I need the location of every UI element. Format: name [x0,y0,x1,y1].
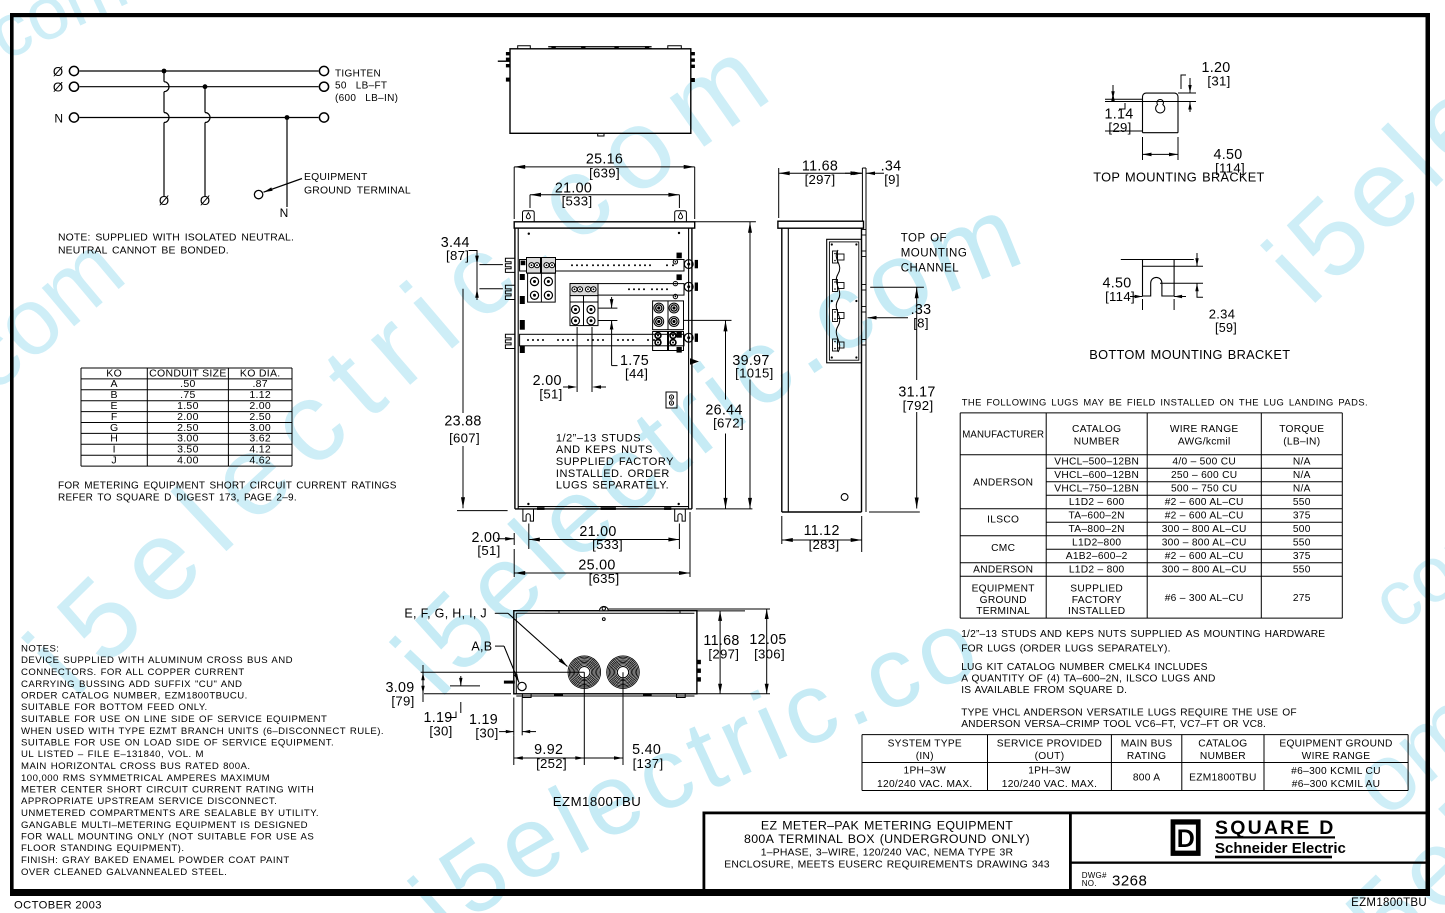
svg-text:TA–600–2N: TA–600–2N [1069,511,1125,522]
svg-text:[252]: [252] [536,756,567,771]
svg-text:REFER TO SQUARE D DIGEST 173,: REFER TO SQUARE D DIGEST 173, PAGE 2–9. [58,493,297,504]
svg-text:1/2”–13 STUDS AND KEPS NUTS SU: 1/2”–13 STUDS AND KEPS NUTS SUPPLIED AS … [961,629,1325,640]
svg-text:[792]: [792] [903,398,934,413]
svg-text:[9]: [9] [884,172,900,187]
svg-text:550: 550 [1293,538,1311,549]
svg-text:NOTE: SUPPLIED WITH ISOLATED N: NOTE: SUPPLIED WITH ISOLATED NEUTRAL. [58,233,294,244]
svg-text:SUITABLE FOR USE ON LOAD SIDE: SUITABLE FOR USE ON LOAD SIDE OF SERVICE… [21,738,334,749]
svg-text:Ø: Ø [159,193,169,208]
svg-text:GROUND TERMINAL: GROUND TERMINAL [304,186,411,197]
svg-text:N: N [280,206,289,220]
svg-text:N: N [54,111,63,125]
svg-text:FINISH: GRAY BAKED ENAMEL POWD: FINISH: GRAY BAKED ENAMEL POWDER COAT PA… [21,855,290,866]
svg-text:FOR METERING EQUIPMENT SHORT C: FOR METERING EQUIPMENT SHORT CIRCUIT CUR… [58,481,397,492]
svg-text:THE FOLLOWING LUGS MAY BE FIEL: THE FOLLOWING LUGS MAY BE FIELD INSTALLE… [962,397,1368,408]
svg-text:TOP MOUNTING BRACKET: TOP MOUNTING BRACKET [1093,170,1264,185]
svg-text:[297]: [297] [805,172,836,187]
svg-text:375: 375 [1293,511,1311,522]
svg-text:A QUANTITY OF (4) TA–600–2N, I: A QUANTITY OF (4) TA–600–2N, ILSCO LUGS … [961,674,1215,685]
svg-text:WIRE RANGE: WIRE RANGE [1170,424,1239,435]
svg-text:300 – 800 AL–CU: 300 – 800 AL–CU [1162,565,1247,576]
svg-text:1PH–3W: 1PH–3W [904,766,947,777]
svg-text:IS AVAILABLE FROM SQUARE D.: IS AVAILABLE FROM SQUARE D. [961,685,1127,696]
svg-text:TOP OF: TOP OF [901,233,947,245]
svg-text:[533]: [533] [592,537,623,552]
svg-text:TIGHTEN: TIGHTEN [335,68,381,79]
svg-text:UL LISTED – FILE E–131840, VOL: UL LISTED – FILE E–131840, VOL. M [21,749,204,760]
svg-text:[29]: [29] [1108,120,1131,135]
svg-text:[114]: [114] [1105,289,1135,304]
svg-text:(IN): (IN) [916,751,934,762]
svg-text:SYSTEM TYPE: SYSTEM TYPE [888,739,962,750]
svg-text:VHCL–600–12BN: VHCL–600–12BN [1054,470,1139,481]
svg-text:EZM1800TBU: EZM1800TBU [1351,897,1427,909]
svg-text:2.34: 2.34 [1209,307,1236,322]
svg-text:300 – 800 AL–CU: 300 – 800 AL–CU [1162,524,1247,535]
svg-text:L1D2–800: L1D2–800 [1072,538,1121,549]
svg-text:(LB–IN): (LB–IN) [1283,436,1320,447]
svg-text:OVER CLEANED GALVANNEALED STEE: OVER CLEANED GALVANNEALED STEEL. [21,867,227,878]
svg-text:SQUARE D: SQUARE D [1215,817,1336,839]
svg-text:[297]: [297] [708,647,739,662]
svg-text:AWG/kcmil: AWG/kcmil [1178,436,1231,447]
svg-text:[44]: [44] [625,366,648,381]
svg-text:ORDER CATALOG NUMBER, EZM1800T: ORDER CATALOG NUMBER, EZM1800TBUCU. [21,691,248,702]
svg-text:CMC: CMC [991,543,1015,554]
svg-text:ANDERSON: ANDERSON [973,477,1033,488]
svg-text:3268: 3268 [1112,873,1147,890]
svg-text:MAIN BUS: MAIN BUS [1121,739,1173,750]
svg-text:800A TERMINAL BOX (UNDERGROUND: 800A TERMINAL BOX (UNDERGROUND ONLY) [744,832,1030,846]
svg-text:[30]: [30] [429,724,452,739]
svg-text:E, F, G, H, I, J: E, F, G, H, I, J [404,607,487,621]
svg-text:CONNECTORS. FOR ALL COPPER CUR: CONNECTORS. FOR ALL COPPER CURRENT [21,667,245,678]
svg-text:TA–800–2N: TA–800–2N [1069,524,1125,535]
svg-text:[51]: [51] [539,387,562,402]
svg-text:SUPPLIED FACTORY: SUPPLIED FACTORY [556,456,674,468]
svg-text:BOTTOM MOUNTING BRACKET: BOTTOM MOUNTING BRACKET [1089,347,1290,362]
svg-text:UNMETERED COMPARTMENTS ARE SEA: UNMETERED COMPARTMENTS ARE SEALABLE BY U… [21,808,319,819]
svg-text:ENCLOSURE, MEETS EUSERC REQUIR: ENCLOSURE, MEETS EUSERC REQUIREMENTS DRA… [724,860,1050,871]
svg-text:1–PHASE, 3–WIRE, 120/240 VAC,: 1–PHASE, 3–WIRE, 120/240 VAC, NEMA TYPE … [761,848,1014,859]
svg-text:(OUT): (OUT) [1035,751,1065,762]
svg-text:EZM1800TBU: EZM1800TBU [1189,772,1257,783]
svg-text:EQUIPMENT: EQUIPMENT [304,172,368,183]
svg-text:INSTALLED: INSTALLED [1068,606,1125,617]
svg-text:TORQUE: TORQUE [1279,424,1324,435]
svg-text:[87]: [87] [446,248,469,263]
svg-text:MAIN HORIZONTAL CROSS BUS RATE: MAIN HORIZONTAL CROSS BUS RATED 800A. [21,761,250,772]
svg-text:4/0 – 500 CU: 4/0 – 500 CU [1172,457,1236,468]
svg-text:ILSCO: ILSCO [987,515,1019,526]
svg-text:Ø: Ø [53,80,63,95]
svg-text:RATING: RATING [1127,751,1167,762]
svg-text:EQUIPMENT: EQUIPMENT [972,584,1035,595]
svg-text:[8]: [8] [913,316,929,331]
svg-text:OCTOBER 2003: OCTOBER 2003 [14,900,102,912]
svg-text:A,B: A,B [471,639,492,653]
svg-text:SUITABLE FOR USE ON LINE SIDE: SUITABLE FOR USE ON LINE SIDE OF SERVICE… [21,714,327,725]
svg-text:L1D2 – 800: L1D2 – 800 [1069,565,1125,576]
svg-text:N/A: N/A [1293,484,1311,495]
svg-text:NUMBER: NUMBER [1074,436,1120,447]
svg-text:EZ METER–PAK METERING EQUIPMEN: EZ METER–PAK METERING EQUIPMENT [761,818,1013,832]
svg-text:MANUFACTURER: MANUFACTURER [962,429,1044,440]
svg-text:Ø: Ø [53,64,63,79]
svg-text:TYPE VHCL ANDERSON VERSATILE L: TYPE VHCL ANDERSON VERSATILE LUGS REQUIR… [961,708,1297,719]
svg-text:[283]: [283] [809,537,840,552]
svg-text:Ø: Ø [200,193,210,208]
svg-text:Schneider Electric: Schneider Electric [1215,840,1346,857]
svg-text:J: J [111,455,117,467]
svg-text:FOR WALL MOUNTING ONLY (NOT SU: FOR WALL MOUNTING ONLY (NOT SUITABLE FOR… [21,832,314,843]
svg-text:300 – 800 AL–CU: 300 – 800 AL–CU [1162,538,1247,549]
svg-text:CATALOG: CATALOG [1198,739,1247,750]
svg-text:N/A: N/A [1293,470,1311,481]
svg-text:MOUNTING: MOUNTING [901,248,968,260]
svg-text:250 – 600 CU: 250 – 600 CU [1171,470,1237,481]
svg-text:METER CENTER SHORT CIRCUIT CUR: METER CENTER SHORT CIRCUIT CURRENT RATIN… [21,785,314,796]
svg-text:FACTORY: FACTORY [1072,595,1122,606]
svg-text:CHANNEL: CHANNEL [901,262,960,274]
svg-text:SUPPLIED: SUPPLIED [1070,584,1123,595]
svg-text:ANDERSON: ANDERSON [973,565,1033,576]
svg-text:[137]: [137] [633,756,664,771]
svg-text:ANDERSON VERSA–CRIMP TOOL VC6–: ANDERSON VERSA–CRIMP TOOL VC6–FT, VC7–FT… [961,719,1266,730]
svg-text:NO.: NO. [1082,879,1097,888]
svg-text:CATALOG: CATALOG [1072,424,1121,435]
svg-text:APPROPRIATE UPSTREAM SERVICE D: APPROPRIATE UPSTREAM SERVICE DISCONNECT. [21,796,277,807]
svg-text:L1D2 – 600: L1D2 – 600 [1069,497,1125,508]
svg-text:VHCL–500–12BN: VHCL–500–12BN [1054,457,1139,468]
svg-text:[51]: [51] [477,543,500,558]
svg-text:D: D [1177,825,1195,853]
svg-text:[607]: [607] [449,431,480,446]
svg-text:CARRYING BUSSING ADD SUFFIX "C: CARRYING BUSSING ADD SUFFIX "CU" AND [21,679,242,690]
svg-text:DEVICE SUPPLIED WITH ALUMINUM: DEVICE SUPPLIED WITH ALUMINUM CROSS BUS … [21,655,293,666]
svg-text:#2 – 600 AL–CU: #2 – 600 AL–CU [1165,511,1244,522]
svg-text:VHCL–750–12BN: VHCL–750–12BN [1054,484,1139,495]
svg-text:WHEN USED WITH TYPE EZMT BRANC: WHEN USED WITH TYPE EZMT BRANCH UNITS (6… [21,726,384,737]
svg-text:NEUTRAL CANNOT BE BONDED.: NEUTRAL CANNOT BE BONDED. [58,246,229,257]
svg-text:WIRE RANGE: WIRE RANGE [1302,751,1371,762]
svg-text:[31]: [31] [1207,74,1230,89]
svg-text:FLOOR STANDING EQUIPMENT).: FLOOR STANDING EQUIPMENT). [21,843,184,854]
svg-text:LUG KIT CATALOG NUMBER CMELK4: LUG KIT CATALOG NUMBER CMELK4 INCLUDES [961,662,1207,673]
svg-text:[30]: [30] [475,726,498,741]
svg-text:4.62: 4.62 [249,455,271,467]
svg-text:800 A: 800 A [1133,772,1161,783]
svg-text:LUGS SEPARATELY.: LUGS SEPARATELY. [556,480,669,492]
svg-text:1PH–3W: 1PH–3W [1028,766,1071,777]
svg-text:A1B2–600–2: A1B2–600–2 [1066,551,1128,562]
svg-text:#2 – 600 AL–CU: #2 – 600 AL–CU [1165,497,1244,508]
svg-text:GANGABLE MULTI–METERING EQUIPM: GANGABLE MULTI–METERING EQUIPMENT IS DES… [21,820,308,831]
svg-text:[306]: [306] [754,647,785,662]
svg-text:N/A: N/A [1293,457,1311,468]
svg-text:#6–300 KCMIL CU: #6–300 KCMIL CU [1291,766,1381,777]
svg-text:120/240 VAC. MAX.: 120/240 VAC. MAX. [1002,779,1098,790]
svg-text:NUMBER: NUMBER [1200,751,1246,762]
svg-text:550: 550 [1293,565,1311,576]
svg-text:[1015]: [1015] [735,366,773,381]
svg-text:#2 – 600 AL–CU: #2 – 600 AL–CU [1165,551,1244,562]
svg-text:NOTES:: NOTES: [21,644,59,655]
svg-text:50 LB–FT: 50 LB–FT [335,81,387,92]
svg-text:[533]: [533] [562,194,593,209]
svg-text:INSTALLED. ORDER: INSTALLED. ORDER [556,468,670,480]
svg-text:[59]: [59] [1215,321,1237,335]
svg-text:AND KEPS NUTS: AND KEPS NUTS [556,444,653,456]
svg-text:4.00: 4.00 [177,455,199,467]
svg-text:1/2”–13 STUDS: 1/2”–13 STUDS [556,433,641,445]
svg-text:#6–300 KCMIL AU: #6–300 KCMIL AU [1292,779,1381,790]
svg-text:23.88: 23.88 [444,414,481,430]
svg-text:500: 500 [1293,524,1311,535]
svg-text:375: 375 [1293,551,1311,562]
svg-text:GROUND: GROUND [980,595,1027,606]
svg-text:[79]: [79] [391,693,414,708]
svg-text:SUITABLE FOR BOTTOM FEED ONLY.: SUITABLE FOR BOTTOM FEED ONLY. [21,702,208,713]
svg-text:120/240 VAC. MAX.: 120/240 VAC. MAX. [877,779,973,790]
svg-text:(600 LB–IN): (600 LB–IN) [335,93,398,104]
svg-text:#6 – 300 AL–CU: #6 – 300 AL–CU [1165,593,1244,604]
svg-text:100,000 RMS SYMMETRICAL AMPERE: 100,000 RMS SYMMETRICAL AMPERES MAXIMUM [21,773,270,784]
svg-text:EQUIPMENT GROUND: EQUIPMENT GROUND [1279,739,1392,750]
svg-text:275: 275 [1293,593,1311,604]
svg-text:SERVICE PROVIDED: SERVICE PROVIDED [997,739,1102,750]
svg-text:EZM1800TBU: EZM1800TBU [553,794,642,809]
svg-text:[635]: [635] [589,571,620,586]
svg-text:TERMINAL: TERMINAL [976,606,1030,617]
svg-text:500 – 750 CU: 500 – 750 CU [1171,484,1237,495]
svg-text:FOR LUGS (ORDER LUGS SEPARATEL: FOR LUGS (ORDER LUGS SEPARATELY). [961,643,1170,654]
svg-text:550: 550 [1293,497,1311,508]
svg-text:[672]: [672] [713,416,744,431]
svg-text:[639]: [639] [589,166,620,181]
